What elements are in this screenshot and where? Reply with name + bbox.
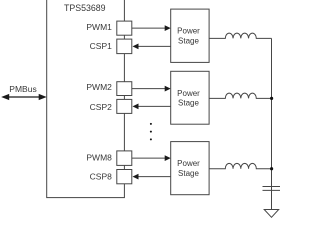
svg-text:Stage: Stage: [178, 99, 199, 108]
svg-text:TPS53689: TPS53689: [64, 3, 106, 13]
svg-text:PWM8: PWM8: [86, 152, 112, 162]
svg-text:Power: Power: [177, 89, 200, 98]
svg-text:CSP1: CSP1: [90, 41, 112, 51]
svg-text:PWM2: PWM2: [86, 82, 112, 92]
svg-text:PWM1: PWM1: [86, 22, 112, 32]
svg-text:CSP2: CSP2: [90, 102, 112, 112]
svg-text:CSP8: CSP8: [90, 172, 112, 182]
svg-text:Stage: Stage: [178, 36, 199, 45]
svg-text:PMBus: PMBus: [9, 84, 36, 94]
svg-text:Power: Power: [177, 27, 200, 36]
svg-text:Power: Power: [177, 159, 200, 168]
svg-text:Stage: Stage: [178, 169, 199, 178]
